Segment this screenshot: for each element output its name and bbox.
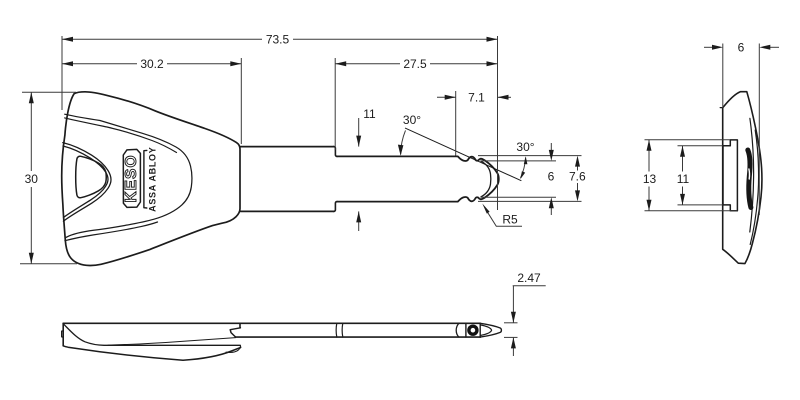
svg-text:7.1: 7.1 — [468, 90, 485, 104]
dim 11 line (blade shoulder) — [358, 118, 360, 147]
section inner contour B — [750, 118, 754, 232]
ASSA ABLOY bracket line — [144, 150, 147, 208]
side view tip outline — [480, 323, 501, 337]
dim 73.5 line — [62, 38, 262, 40]
blade shoulder 11mm section top edge — [240, 146, 333, 148]
arrow angle left — [398, 145, 404, 156]
svg-text:13: 13 — [643, 172, 657, 186]
arrow 30 top — [29, 92, 34, 103]
extension line x=722.8 (6 left) — [722, 44, 724, 109]
dim 30 line (head height) — [30, 92, 32, 171]
dim 6 line section — [704, 46, 712, 48]
dim 7.1 line — [437, 96, 456, 98]
side view pin ring — [467, 325, 478, 336]
arrow R5 — [482, 204, 489, 214]
blade step at 27.5 (bottom) — [334, 202, 337, 212]
section groove highlight notch — [748, 169, 751, 179]
svg-text:6: 6 — [548, 170, 555, 184]
arrow angle right bottom — [520, 171, 525, 179]
keyring recess outer contour — [63, 143, 111, 222]
arrow 6sec left — [712, 45, 723, 50]
extension line y=139.8 (13 top) — [645, 139, 731, 141]
blade cross-section stepped profile — [723, 140, 737, 211]
side view box line left — [465, 323, 467, 337]
arrow 27.5 left — [335, 61, 346, 66]
blade mid section and tip outline with chamfer bumps — [337, 156, 499, 201]
head inner rim contour — [65, 114, 192, 237]
arrowheads (plan) — [29, 37, 580, 264]
R5 leader — [486, 210, 522, 227]
dim 27.5 line — [335, 63, 400, 65]
svg-text:30.2: 30.2 — [140, 57, 164, 71]
extension line x=455.7 — [455, 91, 457, 156]
section bow corner tick — [720, 107, 723, 109]
side view wedge line — [108, 338, 236, 346]
head lower mould companion line — [65, 222, 158, 241]
extension line 2.47 bottom — [504, 336, 518, 338]
svg-text:30°: 30° — [403, 113, 421, 127]
svg-text:7.6: 7.6 — [569, 170, 586, 184]
extension line y=204.9 (11 bottom) — [678, 204, 723, 206]
arrow 73.5 left — [62, 37, 73, 42]
angle arc 30deg left — [401, 130, 406, 154]
dim 7.6 line — [577, 158, 579, 171]
svg-text:27.5: 27.5 — [403, 57, 427, 71]
side view blade joint line 2 — [341, 323, 344, 337]
2.47 dim vertical bottom — [512, 338, 514, 356]
side view head bottom outline — [63, 346, 240, 360]
arrow 6sec right — [759, 45, 770, 50]
extension line 6 top — [481, 160, 556, 162]
arrow 7.6 bottom — [575, 190, 580, 201]
KESO logo box — [123, 149, 140, 207]
svg-text:30: 30 — [25, 172, 39, 186]
extension line x=241.3 — [240, 58, 242, 144]
side view head inner curve — [64, 324, 241, 347]
svg-text:R5: R5 — [502, 212, 518, 226]
section bow outline — [723, 92, 762, 264]
arrow 73.5 right — [487, 37, 498, 42]
keyring hole — [76, 156, 107, 198]
svg-text:ASSA ABLOY: ASSA ABLOY — [148, 147, 158, 212]
svg-text:11: 11 — [677, 172, 690, 186]
arrow 30.2 right — [230, 61, 241, 66]
arrow 30.2 left — [62, 61, 73, 66]
blade step at 27.5 (top) — [334, 147, 337, 157]
dim 11 line section — [682, 146, 684, 172]
head upper mould companion line — [65, 118, 177, 153]
arrow 2.47 bottom — [511, 337, 516, 348]
side view shoulder notch — [230, 328, 240, 337]
2.47 dim vertical top — [512, 286, 514, 323]
side view tip curve — [456, 323, 459, 337]
svg-text:30°: 30° — [516, 140, 534, 154]
arrow 6 top — [549, 150, 554, 161]
arrow 11 top — [356, 136, 361, 147]
angle arc 30deg right — [521, 158, 526, 179]
svg-text:11: 11 — [363, 107, 376, 121]
dimension texts (plan) — [25, 32, 586, 226]
extension line 6 bottom — [481, 196, 556, 198]
keyring recess inner contour — [63, 146, 108, 218]
side view shoulder tick — [239, 323, 241, 328]
arrow 27.5 right — [487, 61, 498, 66]
section inner right contour — [750, 130, 758, 245]
dim 13 line — [648, 140, 650, 172]
arrow 13 bottom — [647, 200, 652, 211]
arrow 11 bottom — [356, 211, 361, 222]
svg-text:2.47: 2.47 — [517, 271, 541, 285]
extension line 7.6 top — [478, 155, 582, 157]
side view dimension 2.47 — [504, 286, 546, 356]
extension line x=497.5 — [497, 36, 499, 210]
key head outline (plan) — [62, 92, 240, 266]
side view head left edge — [62, 323, 64, 346]
arrow angle right top — [524, 156, 528, 164]
section groove strip (dark) — [748, 150, 751, 208]
arrow 11sec top — [680, 146, 685, 157]
extension line 7.6 bottom — [478, 200, 582, 202]
2.47 leader underline — [513, 285, 546, 287]
arrow 7.6 top — [575, 156, 580, 167]
extension line y=263.8 head bottom — [20, 263, 77, 265]
side view left edge notch — [62, 331, 64, 337]
extension line y=145.8 (11 top) — [678, 145, 723, 147]
arrow 11sec bottom — [680, 194, 685, 205]
svg-text:KESO: KESO — [123, 154, 140, 202]
extension line x=335.2 — [334, 58, 336, 150]
side view head bottom fold line — [226, 348, 240, 353]
blade shoulder 11mm section bottom edge — [240, 210, 333, 212]
extension line x=759.3 (6 right) — [758, 44, 760, 216]
extension line x=62 — [61, 36, 63, 110]
blade tip chamfer inner arc — [481, 161, 491, 197]
extension line 2.47 top — [504, 322, 518, 324]
arrow 7.1 right — [498, 95, 509, 100]
arrow 7.1 left — [445, 95, 456, 100]
extension line y=95 head top — [22, 91, 76, 93]
side view top edge — [63, 322, 480, 324]
arrow 2.47 top — [511, 312, 516, 323]
section dims — [645, 44, 780, 216]
30 degree chamfer construction line — [405, 128, 521, 180]
dim 6 line (tip height) — [550, 143, 552, 152]
side view box line right — [479, 323, 481, 337]
side view blade joint line 1 — [335, 323, 338, 337]
side view blade bottom edge — [235, 336, 480, 338]
arrow 30 bottom — [29, 253, 34, 264]
svg-text:6: 6 — [738, 40, 745, 54]
svg-text:73.5: 73.5 — [266, 32, 290, 46]
arrow 13 top — [647, 140, 652, 151]
side view tip chamfer arc — [480, 325, 491, 336]
dim 30.2 line — [62, 63, 137, 65]
extension line y=210.8 (13 bottom) — [645, 210, 738, 212]
arrow 6 bottom — [549, 197, 554, 208]
